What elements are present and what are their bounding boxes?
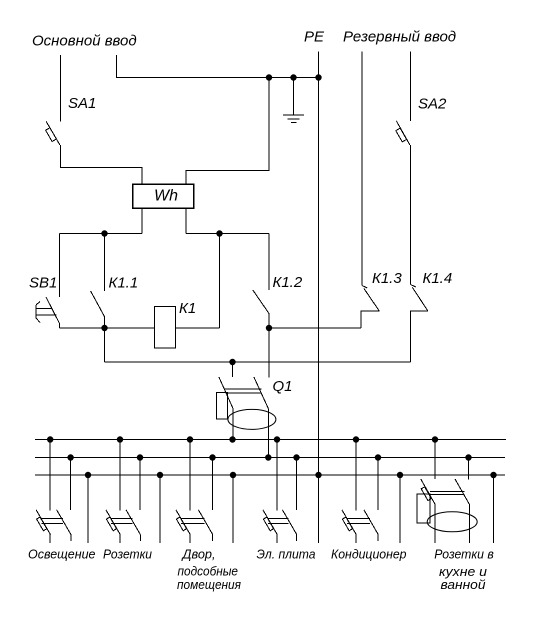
wire branch2 phase drop <box>119 440 121 511</box>
svg-text:SB1: SB1 <box>29 275 57 292</box>
node bus3 branch3 <box>230 472 236 478</box>
node bus3 PE <box>315 472 321 478</box>
wire SA2 bottom <box>410 145 412 285</box>
node N-PE junction 1 <box>266 74 272 80</box>
node bus3 branch2 <box>157 472 163 478</box>
wire Wh bottom left <box>141 208 143 234</box>
wire branch2 PE drop <box>159 475 161 543</box>
wire branch1 N out <box>70 535 72 542</box>
wire branch4 N out <box>296 535 298 542</box>
wire branch4 phase drop <box>276 440 278 511</box>
breaker RCD Q1 <box>217 362 276 429</box>
wire branch3 N drop <box>212 458 214 511</box>
svg-text:Q1: Q1 <box>273 378 293 395</box>
svg-text:Освещение: Освещение <box>28 547 96 562</box>
wire branch5 phase drop <box>355 440 357 511</box>
node bus1 branch4 <box>274 436 280 442</box>
wire bus line 2 neutral <box>35 457 505 459</box>
svg-text:SA2: SA2 <box>418 96 447 113</box>
svg-text:Двор,: Двор, <box>181 547 216 562</box>
svg-text:К1.2: К1.2 <box>273 274 303 291</box>
wire branch3 N out <box>212 535 214 542</box>
svg-text:PE: PE <box>304 29 325 46</box>
svg-text:Розетки в: Розетки в <box>434 547 494 562</box>
wire rail A <box>60 233 143 235</box>
wire K1.2 bottom <box>268 314 270 329</box>
switch SA2 <box>396 121 410 145</box>
svg-text:К1.3: К1.3 <box>372 270 402 287</box>
wire Q1 right pole to bus2 <box>267 409 269 458</box>
breaker RCD branch6 <box>417 479 477 532</box>
wire branch4 phase out <box>276 535 278 544</box>
svg-text:К1.4: К1.4 <box>423 270 453 287</box>
node bus1 branch5 <box>353 436 359 442</box>
wire branch3 phase drop <box>189 440 191 511</box>
node N-PE junction 2 <box>290 74 296 80</box>
node N-PE junction 3 <box>315 74 321 80</box>
node bus2 branch2 <box>137 454 143 460</box>
svg-text:Резервный ввод: Резервный ввод <box>343 29 456 46</box>
wire branch6 phase drop <box>434 440 436 480</box>
svg-text:Основной ввод: Основной ввод <box>32 33 137 50</box>
wire Q1 left pole to bus1 <box>232 409 234 440</box>
wire SB1 top <box>59 234 61 298</box>
svg-text:Кондиционер: Кондиционер <box>331 547 407 562</box>
wire branch6 N out <box>469 505 471 544</box>
node bus1 branch1 <box>47 436 53 442</box>
node bus1 Q1 <box>229 436 235 442</box>
node bus1 branch2 <box>117 436 123 442</box>
breaker branch1 <box>36 510 71 535</box>
contact K1.1 <box>91 291 105 317</box>
contact K1.2 <box>253 290 269 314</box>
wire N to Wh input <box>186 78 269 185</box>
wire bus line 1 phase <box>35 439 506 441</box>
pushbutton SB1 <box>36 297 60 324</box>
wire branch6 PE drop <box>493 475 495 543</box>
node bus2 branch5 <box>375 454 381 460</box>
wire K1.2 junction to K1.3 <box>269 327 361 329</box>
wire branch1 N drop <box>70 458 72 511</box>
node rail A junction <box>101 230 107 236</box>
wire Wh bottom right <box>185 208 187 234</box>
switch SA1 <box>46 121 60 145</box>
breaker branch5 <box>342 510 378 535</box>
wire coil to riser <box>176 327 220 329</box>
wire rail C left <box>60 327 155 329</box>
svg-text:Розетки: Розетки <box>103 547 152 562</box>
wire bus line 3 PE <box>35 474 505 476</box>
wire branch4 PE drop <box>318 475 320 543</box>
node bus2 branch6 <box>465 454 471 460</box>
node bus2 Q1 <box>265 454 271 460</box>
wire branch5 N drop <box>377 458 379 511</box>
wire branch4 N drop <box>296 458 298 511</box>
wire main input N <box>117 55 319 78</box>
svg-text:помещения: помещения <box>177 577 241 592</box>
svg-text:Эл. плита: Эл. плита <box>257 547 316 562</box>
wire K1.2 top <box>268 234 270 291</box>
wire branch6 N drop <box>468 458 470 480</box>
wire K1.2 down to Q1 right pole <box>268 328 270 378</box>
wire SA1 bottom <box>61 145 143 184</box>
wire branch1 PE drop <box>87 475 89 543</box>
breaker branch2 <box>106 510 140 535</box>
node bus2 branch3 <box>209 454 215 460</box>
wire branch2 N out <box>139 535 141 542</box>
node bus1 branch3 <box>187 436 193 442</box>
wire reserve input line 1 <box>361 52 363 286</box>
wire SB1 bottom <box>59 324 61 329</box>
wire main input phase top <box>60 55 62 122</box>
breaker branch4 <box>263 510 297 535</box>
wire branch2 phase out <box>119 535 121 544</box>
wire PE line <box>318 52 320 476</box>
node rail B junction <box>216 230 222 236</box>
contact K1.3 <box>361 286 379 329</box>
breaker branch3 <box>176 510 213 535</box>
node bus3 branch6 <box>490 472 496 478</box>
node bus3 branch5 <box>397 472 403 478</box>
svg-text:К1: К1 <box>179 300 196 317</box>
node K1.1 bottom junction <box>101 325 107 331</box>
wire branch2 N drop <box>139 458 141 511</box>
svg-text:Wh: Wh <box>154 188 178 205</box>
wire branch5 PE drop <box>399 475 401 543</box>
wire K1.1 bottom <box>104 317 106 328</box>
node bus2 branch4 <box>293 454 299 460</box>
node bus1 branch6 <box>432 436 438 442</box>
ground <box>283 78 304 123</box>
wire K1.1 top <box>104 234 106 292</box>
wire reserve input line 2 <box>410 52 412 122</box>
node bus2 branch1 <box>67 454 73 460</box>
wire branch3 phase out <box>189 535 191 544</box>
wire rail B <box>186 233 269 235</box>
wire riser to rail B <box>219 234 221 329</box>
wire branch1 phase drop <box>49 440 51 511</box>
svg-text:ванной: ванной <box>441 577 486 592</box>
wire branch6 phase out <box>434 505 436 544</box>
svg-text:К1.1: К1.1 <box>109 275 139 292</box>
wire branch5 N out <box>377 535 379 542</box>
relay coil K1 <box>155 307 176 349</box>
node rail D junction Q1 <box>229 359 235 365</box>
svg-text:SA1: SA1 <box>68 95 96 112</box>
wire K1.1 junction down to rail D <box>104 328 106 362</box>
contact K1.4 <box>411 285 428 363</box>
wire rail D <box>105 361 411 363</box>
meter Wh U1 <box>133 184 194 208</box>
node bus3 branch1 <box>85 472 91 478</box>
wire branch5 phase out <box>355 535 357 544</box>
node K1.2 bottom junction <box>266 325 272 331</box>
wire branch3 PE drop <box>232 475 234 543</box>
wire branch1 phase out <box>49 535 51 544</box>
